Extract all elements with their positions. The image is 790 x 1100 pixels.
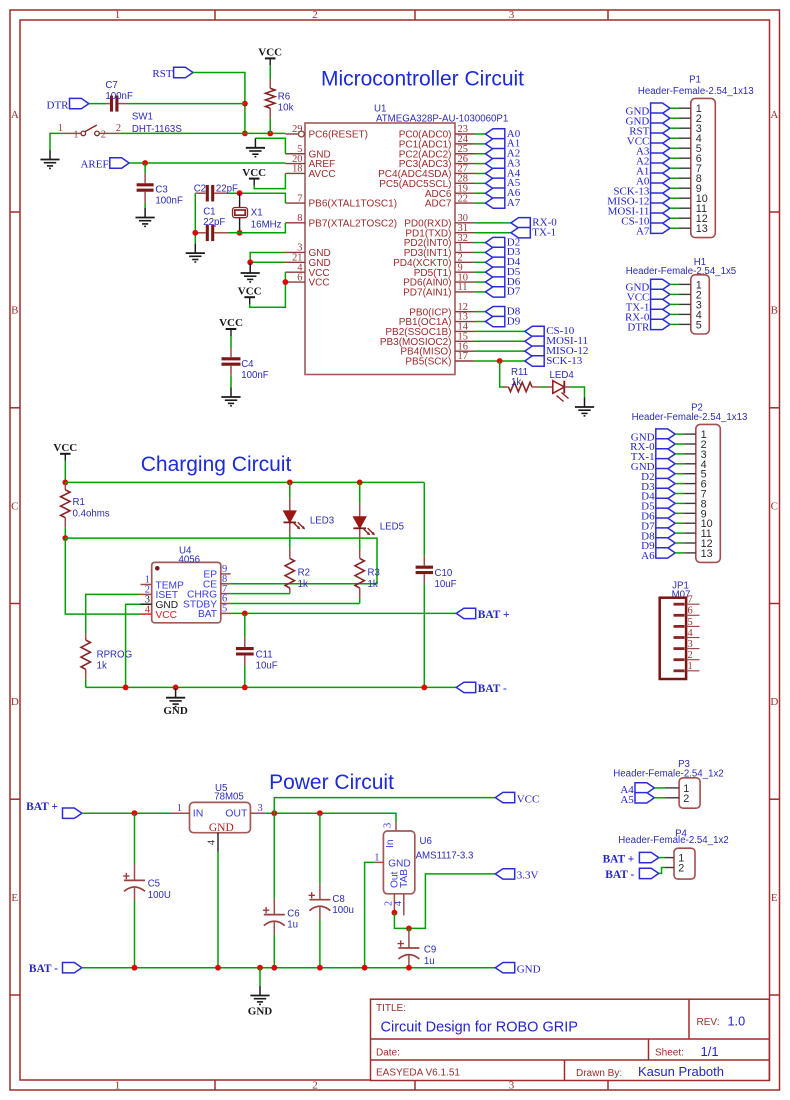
U1 pin 29 PC6(RESET) — [285, 124, 368, 140]
svg-text:Sheet:: Sheet: — [655, 1048, 684, 1059]
net flag TX-1 -> H1 pin 3 — [626, 299, 670, 313]
junction LED5 top — [357, 480, 363, 486]
net flag D9 — [485, 315, 520, 327]
U1 pin 26 PC3(ADC3) — [399, 154, 475, 170]
resistor RPROG — [81, 633, 132, 687]
wire BAT+ net — [231, 612, 457, 614]
junction rail gnd — [173, 685, 179, 691]
wire LED4-gnd — [571, 387, 585, 398]
svg-text:OUT: OUT — [225, 808, 248, 820]
title block Drawn By — [576, 1064, 724, 1079]
svg-text:4: 4 — [145, 604, 151, 615]
wire xtal left vertical — [194, 193, 196, 243]
svg-text:GND: GND — [163, 705, 188, 717]
junction gnd 21 — [247, 259, 253, 265]
frame row labels — [11, 109, 779, 904]
wire pins 4/6 VCC — [250, 272, 286, 307]
svg-text:Header-Female-2.54_1x13: Header-Female-2.54_1x13 — [632, 412, 748, 423]
junction RST/DTR — [242, 101, 248, 107]
net flag D4 -> P2 pin 7 — [641, 488, 675, 502]
wire P1 pin 1 — [670, 107, 679, 109]
svg-text:6: 6 — [297, 272, 302, 283]
wire SW1 left — [50, 133, 60, 150]
svg-text:18: 18 — [292, 164, 302, 175]
svg-text:Kasun Praboth: Kasun Praboth — [638, 1064, 724, 1079]
junction BAT- rail — [362, 965, 368, 971]
wire net SCK-13 — [475, 360, 525, 362]
svg-text:3: 3 — [509, 1080, 515, 1092]
U1 pin 31 PD1(TXD) — [405, 223, 474, 239]
wire P1 pin 13 — [670, 227, 679, 229]
capacitor C4 — [222, 348, 269, 388]
U1 pin 15 PB3(MOSIOC2) — [380, 331, 475, 347]
junction R1 bottom — [62, 535, 68, 541]
svg-text:10uF: 10uF — [256, 660, 278, 671]
JP1 pin 2 — [674, 650, 700, 661]
svg-text:3: 3 — [509, 9, 515, 21]
junction X1 top — [237, 190, 243, 196]
junction pin17/R11 — [497, 358, 503, 364]
net flag A0 -> P1 pin 8 — [636, 173, 670, 187]
U1 pin 9 PD5(T1) — [414, 262, 475, 278]
net flag D8 — [485, 305, 520, 317]
LED LED4 — [547, 370, 574, 401]
U4 pin 6 STDBY — [183, 594, 231, 611]
net flag D3 — [485, 246, 520, 258]
wire P4 pin 1 — [659, 857, 665, 859]
net flag A1 — [485, 138, 520, 150]
resistor R11 — [504, 367, 542, 392]
wire P2 pin 11 — [675, 532, 684, 534]
wire P1 pin 10 — [670, 197, 679, 199]
junction pin6 — [283, 279, 289, 285]
svg-text:C10: C10 — [435, 568, 453, 579]
net flag BAT + — [456, 608, 509, 621]
net flag A1 -> P1 pin 7 — [636, 163, 670, 177]
svg-text:10k: 10k — [278, 103, 294, 114]
frame column labels — [115, 9, 515, 1091]
net flag AREF — [80, 158, 129, 171]
wire net D3 — [475, 251, 486, 253]
svg-text:13: 13 — [701, 548, 713, 560]
wire P2 pin 10 — [675, 522, 684, 524]
svg-text:In: In — [385, 840, 396, 849]
net flag GND -> H1 pin 1 — [626, 279, 670, 293]
junction BAT- rail — [257, 965, 263, 971]
svg-text:BAT +: BAT + — [26, 801, 58, 813]
svg-text:22: 22 — [458, 193, 468, 204]
U1 pin 19 ADC6 — [425, 183, 475, 199]
wire P1 pin 5 — [670, 147, 679, 149]
net flag GND -> P1 pin 2 — [626, 113, 670, 127]
wire to R11 — [500, 361, 505, 387]
junction BAT- rail — [132, 965, 138, 971]
svg-text:5: 5 — [222, 604, 227, 615]
capacitor C9 — [398, 928, 437, 967]
regulator U5 78M05 box — [190, 783, 251, 834]
junction OUT — [271, 810, 277, 816]
svg-text:100u: 100u — [332, 905, 354, 916]
svg-text:29: 29 — [292, 124, 302, 135]
net flag A3 -> P1 pin 5 — [636, 143, 670, 157]
net flag SCK-13 — [525, 355, 583, 367]
connector P4 Header-Female-2.54_1x2 — [618, 828, 728, 879]
net flag GND power — [495, 963, 540, 976]
svg-text:4: 4 — [393, 900, 404, 906]
U4 pin 3 GND — [141, 594, 179, 611]
connector P3 Header-Female-2.54_1x2 — [613, 759, 723, 808]
JP1 pin 3 — [674, 639, 700, 650]
U4 pin 1 TEMP — [141, 575, 185, 592]
U4 pin 9 EP — [203, 564, 230, 581]
wire P3 pin 1 — [654, 787, 665, 789]
net flag RST -> P1 pin 3 — [629, 123, 670, 137]
U1 pin 5 GND — [285, 144, 330, 160]
wire net A3 — [475, 163, 486, 165]
svg-text:PD7(AIN1): PD7(AIN1) — [403, 288, 451, 299]
svg-text:1k: 1k — [97, 660, 107, 671]
wire net A7 — [475, 202, 486, 204]
svg-text:RPROG: RPROG — [97, 650, 133, 661]
net flag MISO-12 -> P1 pin 10 — [607, 193, 670, 207]
JP1 pin 6 — [674, 606, 700, 617]
ground pins 3/21 — [241, 264, 260, 282]
svg-text:8: 8 — [297, 213, 302, 224]
svg-text:AREF: AREF — [80, 158, 108, 170]
wire P2 pin 7 — [675, 493, 684, 495]
ground LED4 — [575, 398, 594, 416]
net flag BAT - input — [29, 963, 82, 975]
net flag BAT - -> P4 pin 2 — [605, 868, 659, 881]
svg-text:LED4: LED4 — [550, 370, 575, 381]
svg-text:PB5(SCK): PB5(SCK) — [405, 357, 451, 368]
net flag BAT + input — [26, 801, 82, 819]
wire H1 pin 5 — [670, 323, 679, 325]
svg-text:BAT -: BAT - — [478, 683, 507, 695]
resistor R2 — [285, 545, 310, 594]
svg-text:PB6(XTAL1TOSC1): PB6(XTAL1TOSC1) — [309, 199, 398, 210]
title block Sheet — [655, 1044, 719, 1059]
svg-text:Header-Female-2.54_1x5: Header-Female-2.54_1x5 — [626, 266, 736, 277]
U1 pin 8 PB7(XTAL2TOSC2) — [285, 213, 397, 229]
wire net D6 — [475, 281, 486, 283]
U1 pin 17 PB5(SCK) — [405, 351, 474, 367]
svg-text:1: 1 — [73, 130, 78, 141]
svg-text:GND: GND — [517, 964, 541, 976]
wire net MOSI-11 — [475, 340, 525, 342]
svg-text:REV:: REV: — [697, 1017, 720, 1028]
svg-text:U6: U6 — [420, 836, 432, 847]
ground power GND — [248, 968, 273, 1018]
capacitor C10 — [416, 482, 457, 687]
wire P2 pin 9 — [675, 512, 684, 514]
svg-text:LED5: LED5 — [380, 521, 404, 532]
svg-text:Power Circuit: Power Circuit — [269, 771, 394, 794]
power VCC AVCC — [249, 179, 260, 186]
svg-text:C8: C8 — [332, 894, 344, 905]
svg-text:1u: 1u — [287, 919, 298, 930]
net flag A4 -> P3 pin 1 — [620, 783, 654, 796]
svg-text:C3: C3 — [155, 185, 167, 196]
LED LED5 — [353, 482, 404, 549]
net flag A7 — [485, 197, 520, 209]
wire P2 pin 1 — [675, 433, 684, 435]
U5 pin 1 IN — [171, 803, 190, 814]
resistor R6 — [266, 79, 294, 133]
svg-text:100nF: 100nF — [241, 370, 269, 381]
svg-text:VCC: VCC — [242, 167, 266, 179]
U1 pin 11 PD7(AIN1) — [403, 282, 474, 298]
wire top rail — [65, 481, 424, 483]
junction X1 bottom — [237, 230, 243, 236]
svg-text:GND: GND — [209, 822, 234, 834]
connector JP1 M07 — [660, 580, 691, 679]
U1 pin 30 PD0(RXD) — [404, 213, 474, 229]
net flag D2 -> P2 pin 5 — [641, 469, 675, 483]
svg-text:IN: IN — [193, 808, 204, 820]
net flag A0 — [485, 128, 520, 140]
wire net A1 — [475, 143, 486, 145]
wire net A2 — [475, 153, 486, 155]
net flag 3.3V — [495, 869, 538, 882]
U1 pin 16 PB4(MISO) — [400, 341, 474, 357]
svg-text:2: 2 — [101, 130, 106, 141]
U1 pin 32 PD2(INT0) — [404, 233, 475, 249]
net flag A2 -> P1 pin 6 — [636, 153, 670, 167]
wire BAT- rail — [86, 686, 457, 688]
net flag DTR -> H1 pin 5 — [627, 319, 670, 333]
svg-text:C4: C4 — [241, 359, 254, 370]
wire net D4 — [475, 261, 486, 263]
svg-text:13: 13 — [696, 223, 708, 235]
svg-text:VCC: VCC — [238, 285, 262, 297]
U1 pin 22 ADC7 — [425, 193, 475, 209]
svg-text:DTR: DTR — [627, 322, 650, 334]
svg-text:2: 2 — [678, 863, 684, 875]
wire pins 3/21 GND — [250, 252, 285, 262]
net flag D4 — [485, 256, 520, 268]
svg-text:1: 1 — [374, 853, 379, 864]
U1 pin 12 PB0(ICP) — [409, 302, 474, 318]
wire P1 pin 11 — [670, 207, 679, 209]
svg-text:D: D — [770, 696, 778, 708]
U1 pin 6 VCC — [285, 272, 329, 288]
svg-text:SW1: SW1 — [132, 111, 153, 122]
U1 pin 23 PC0(ADC0) — [399, 124, 475, 140]
U1 pin 10 PD6(AIN0) — [403, 272, 474, 288]
net flag A6 — [485, 187, 520, 199]
ground pin5 — [246, 138, 265, 156]
junction BAT- rail — [215, 965, 221, 971]
wire H1 pin 4 — [670, 313, 679, 315]
svg-text:D9: D9 — [507, 315, 521, 327]
JP1 pin 1 — [674, 661, 700, 672]
junction AREF/C3 — [142, 160, 148, 166]
wire P2 pin 5 — [675, 473, 684, 475]
net flag D5 -> P2 pin 8 — [641, 498, 675, 512]
net flag DTR — [47, 98, 89, 111]
resistor R3 — [355, 549, 380, 604]
svg-text:2: 2 — [683, 793, 689, 805]
svg-text:TAB: TAB — [399, 869, 410, 888]
svg-text:A7: A7 — [507, 197, 521, 209]
svg-text:PB7(XTAL2TOSC2): PB7(XTAL2TOSC2) — [309, 218, 398, 229]
wire net TX-1 — [475, 232, 511, 234]
wire P1 pin 6 — [670, 157, 679, 159]
net flag D7 — [485, 286, 520, 298]
net flag CS-10 — [525, 325, 575, 337]
net flag D9 -> P2 pin 12 — [641, 538, 675, 552]
svg-text:4: 4 — [207, 839, 218, 845]
LED LED3 — [284, 482, 335, 545]
svg-text:BAT: BAT — [198, 609, 217, 620]
net flag GND -> P2 pin 1 — [631, 429, 675, 443]
capacitor C11 — [236, 613, 278, 687]
wire OUT node — [265, 813, 396, 822]
wire SW1 right to pin29 — [120, 132, 286, 134]
svg-text:ATMEGA328P-AU-1030060P1: ATMEGA328P-AU-1030060P1 — [376, 114, 508, 125]
wire C3-gnd — [144, 203, 146, 208]
svg-text:B: B — [11, 305, 18, 317]
switch SW1 DHT-1163S — [58, 111, 182, 140]
net flag SCK-13 -> P1 pin 9 — [613, 183, 670, 197]
net flag GND -> P1 pin 1 — [626, 103, 670, 117]
capacitor C1 — [195, 207, 228, 241]
wire P1 pin 4 — [670, 137, 679, 139]
svg-text:7: 7 — [297, 193, 302, 204]
svg-text:R6: R6 — [278, 91, 290, 102]
svg-text:C9: C9 — [424, 944, 436, 955]
svg-text:1.0: 1.0 — [728, 1015, 746, 1029]
wire pin5 GND branch — [255, 138, 285, 153]
wire H1 pin 2 — [670, 293, 679, 295]
svg-text:A: A — [770, 109, 778, 121]
wire P2 pin 12 — [675, 542, 684, 544]
ground SW1 — [40, 150, 59, 168]
svg-text:ADC7: ADC7 — [425, 199, 452, 210]
svg-text:VCC: VCC — [309, 278, 330, 289]
wire net D2 — [475, 242, 486, 244]
net flag A4 — [485, 167, 520, 179]
svg-text:Header-Female-2.54_1x13: Header-Female-2.54_1x13 — [638, 86, 754, 97]
net flag MOSI-11 -> P1 pin 11 — [608, 203, 670, 217]
net flag TX-1 — [511, 227, 556, 239]
wire R1 rail to CE — [65, 538, 377, 584]
wire P2 pin 2 — [675, 443, 684, 445]
wire C7-node — [127, 103, 245, 105]
wire net RX-0 — [475, 222, 511, 224]
svg-text:Microcontroller Circuit: Microcontroller Circuit — [321, 68, 524, 91]
svg-text:22pF: 22pF — [203, 217, 225, 228]
resistor R1 — [61, 482, 110, 538]
net flag D8 -> P2 pin 11 — [641, 528, 675, 542]
svg-text:B: B — [771, 305, 778, 317]
wire net A6 — [475, 192, 486, 194]
svg-text:3.3V: 3.3V — [517, 870, 539, 882]
svg-text:P1: P1 — [689, 75, 701, 86]
net flag D2 — [485, 236, 520, 248]
wire net CS-10 — [475, 330, 525, 332]
svg-text:E: E — [11, 892, 18, 904]
net flag RST — [152, 67, 193, 80]
svg-text:3: 3 — [383, 823, 394, 828]
power VCC R6 — [265, 58, 276, 65]
wire P1 pin 8 — [670, 177, 679, 179]
svg-text:R2: R2 — [298, 568, 310, 579]
svg-text:4: 4 — [688, 628, 694, 639]
wire P1 pin 2 — [670, 117, 679, 119]
wire VCC branch — [274, 798, 495, 814]
wire C1 to pin8 — [229, 223, 286, 233]
charger IC U4 4056 box — [152, 545, 221, 622]
svg-text:VCC: VCC — [156, 610, 178, 621]
svg-text:PC6(RESET): PC6(RESET) — [309, 130, 368, 141]
svg-text:VCC: VCC — [219, 317, 243, 329]
capacitor C3 — [137, 163, 183, 207]
U1 pin 25 PC2(ADC2) — [399, 144, 475, 160]
svg-text:1: 1 — [177, 803, 182, 814]
svg-text:GND: GND — [248, 1005, 273, 1017]
wire P2 pin 13 — [675, 552, 684, 554]
svg-text:BAT +: BAT + — [478, 609, 510, 621]
capacitor C6 — [263, 813, 300, 968]
wire BAT- rail power — [82, 967, 495, 969]
svg-text:A6: A6 — [641, 550, 655, 562]
U4 pin 2 ISET — [141, 585, 179, 602]
svg-text:C1: C1 — [203, 207, 215, 218]
U1 pin 24 PC1(ADC1) — [399, 134, 475, 150]
svg-text:3: 3 — [688, 639, 693, 650]
svg-text:1: 1 — [688, 661, 693, 672]
power VCC C4 — [226, 329, 237, 336]
U5 pin 3 OUT — [250, 803, 265, 814]
svg-text:C2: C2 — [194, 184, 206, 195]
wire DTR-C7 — [89, 103, 106, 105]
net flag BAT + -> P4 pin 1 — [603, 852, 659, 865]
svg-text:D7: D7 — [507, 286, 521, 298]
svg-text:GND: GND — [388, 858, 411, 869]
wire P2 pin 3 — [675, 453, 684, 455]
net flag A5 -> P3 pin 2 — [620, 793, 654, 806]
net flag BAT - — [456, 682, 507, 695]
svg-text:0.4ohms: 0.4ohms — [73, 508, 110, 519]
U1 pin 13 PB1(OC1A) — [399, 312, 475, 328]
junction C8 top — [317, 810, 323, 816]
U1 pin 28 PC5(ADC5SCL) — [379, 174, 474, 190]
net flag CS-10 -> P1 pin 12 — [621, 213, 670, 227]
net flag RX-0 -> H1 pin 4 — [625, 309, 670, 323]
svg-text:AMS1117-3.3: AMS1117-3.3 — [416, 851, 474, 862]
ground charging GND — [163, 687, 188, 716]
net flag MISO-12 — [525, 345, 589, 357]
connector H1 Header-Female-2.54_1x5 — [626, 257, 736, 334]
junction LED3 top — [287, 480, 293, 486]
U1 pin 18 AVCC — [285, 164, 335, 180]
wire net A0 — [475, 133, 486, 135]
svg-text:1u: 1u — [424, 956, 435, 967]
svg-text:E: E — [771, 892, 778, 904]
svg-text:10uF: 10uF — [435, 579, 457, 590]
junction U6 out — [392, 910, 398, 916]
junction rail RPROG — [123, 685, 129, 691]
wire VCC down — [64, 461, 66, 483]
svg-text:C5: C5 — [148, 879, 160, 890]
wire pin3 GND down — [126, 604, 141, 687]
svg-text:7: 7 — [688, 595, 693, 606]
svg-text:16MHz: 16MHz — [251, 219, 282, 230]
svg-text:11: 11 — [458, 282, 468, 293]
junction C1 left — [192, 230, 198, 236]
